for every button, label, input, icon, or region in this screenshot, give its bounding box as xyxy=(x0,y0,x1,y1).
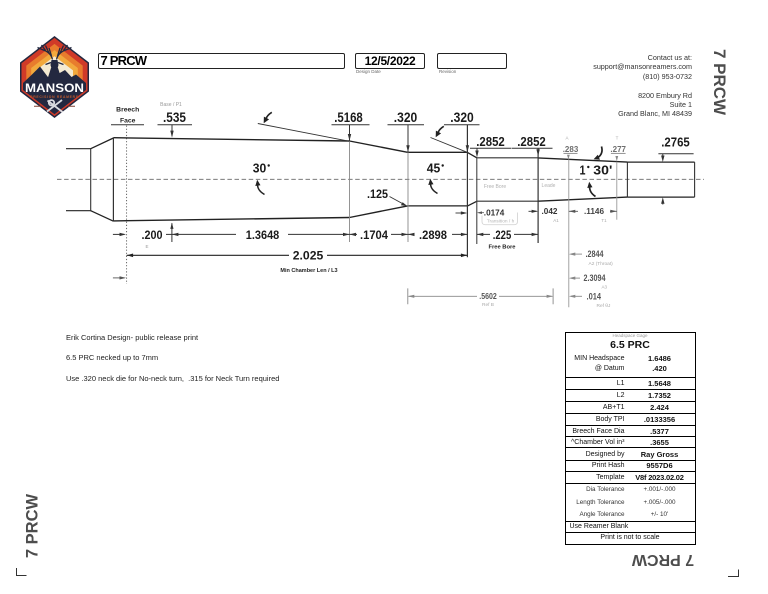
svg-text:.2852: .2852 xyxy=(517,134,546,149)
svg-text:Ref B: Ref B xyxy=(482,302,494,308)
dimension .320 neck end xyxy=(444,110,480,153)
dimension .5168 xyxy=(332,110,370,141)
svg-text:.277: .277 xyxy=(610,145,626,154)
extension line at throat point A xyxy=(568,159,570,307)
svg-text:.320: .320 xyxy=(450,110,474,125)
svg-text:Transition / h: Transition / h xyxy=(487,219,515,225)
svg-text:.014: .014 xyxy=(587,291,602,301)
extension line at neck start xyxy=(407,125,409,153)
svg-text:.2844: .2844 xyxy=(586,249,604,259)
svg-text:Leade: Leade xyxy=(542,183,556,189)
logo deer xyxy=(38,45,72,82)
title box 7 PRCW xyxy=(98,53,345,69)
svg-text:2.3094: 2.3094 xyxy=(584,273,606,283)
dimension .014 xyxy=(569,291,611,309)
svg-text:.320: .320 xyxy=(394,110,418,125)
neck bottom line xyxy=(408,205,468,207)
svg-text:.5168: .5168 xyxy=(334,110,363,125)
svg-text:E: E xyxy=(145,244,148,249)
logo amber band xyxy=(31,50,78,104)
contact block xyxy=(492,53,692,119)
centerline xyxy=(57,178,704,180)
angle 30deg xyxy=(253,161,270,195)
svg-text:.1704: .1704 xyxy=(360,228,388,242)
shank right edge xyxy=(90,148,92,211)
dimension row: 1.3648 xyxy=(172,228,350,242)
dimension .5602 xyxy=(408,288,553,307)
svg-text:1: 1 xyxy=(580,162,586,177)
svg-text:Min Chamber Len / L3: Min Chamber Len / L3 xyxy=(280,268,337,274)
data table xyxy=(565,332,696,546)
dimension .2844 throat xyxy=(569,249,613,267)
dimension .283 xyxy=(563,145,579,159)
extension line at point T xyxy=(616,162,618,220)
bore top line xyxy=(627,161,694,163)
extension line at neck end xyxy=(466,125,468,257)
svg-text:A1: A1 xyxy=(553,218,559,223)
extension line at freebore end xyxy=(537,148,539,243)
dimension .2765 xyxy=(658,135,693,205)
breech chamfer bottom xyxy=(91,211,114,222)
svg-text:Face: Face xyxy=(120,118,136,125)
logo badge outer hexagon xyxy=(20,36,89,118)
chamber body top line xyxy=(113,138,349,141)
freebore bottom line xyxy=(477,200,538,202)
corner marks xyxy=(0,560,768,594)
svg-text:.2898: .2898 xyxy=(419,228,447,242)
shank bottom line xyxy=(66,210,91,212)
dimension .1146 xyxy=(569,207,617,223)
leade top line xyxy=(538,158,627,162)
svg-text:Ref θJ: Ref θJ xyxy=(597,303,611,309)
angle 45deg xyxy=(427,161,444,194)
svg-text:Base / P1: Base / P1 xyxy=(160,102,182,108)
datum arrow lower xyxy=(113,276,126,279)
dimension 2.3094 xyxy=(569,273,608,289)
bore bottom line xyxy=(627,196,694,198)
dimension .2852 freebore end xyxy=(512,134,553,156)
svg-text:.5602: .5602 xyxy=(479,291,497,301)
dimension .320 neck start xyxy=(388,110,425,153)
svg-text:T: T xyxy=(616,136,619,141)
angle 1deg30 leade xyxy=(580,147,613,197)
shoulder bottom line xyxy=(350,206,408,218)
leade bottom line xyxy=(538,197,627,201)
svg-text:T1: T1 xyxy=(601,218,607,223)
dimension .125 leader xyxy=(367,187,408,207)
logo crossed tools xyxy=(47,100,63,112)
dimension row: .1704 xyxy=(350,228,409,242)
notes xyxy=(66,333,198,342)
revision box xyxy=(437,53,507,69)
dimension .2852 freebore start xyxy=(470,134,511,157)
dimension row: .200 xyxy=(113,223,174,242)
leader for 45 transition xyxy=(431,126,468,152)
breech face datum dotted line xyxy=(126,126,128,284)
svg-text:30': 30' xyxy=(593,162,612,177)
extension line at shoulder start xyxy=(349,125,351,141)
rotated labels xyxy=(719,82,768,102)
shank top line xyxy=(66,148,91,150)
bore start edge xyxy=(626,162,628,197)
svg-text:30: 30 xyxy=(253,161,267,176)
svg-text:.2765: .2765 xyxy=(661,135,690,150)
extension line at freebore start xyxy=(476,158,478,244)
45deg transition top xyxy=(467,152,477,158)
svg-text:.225: .225 xyxy=(493,228,512,242)
logo cream band xyxy=(36,56,73,98)
dimension .535 xyxy=(158,110,193,138)
leader for body taper xyxy=(258,112,350,141)
neck top line xyxy=(408,151,468,153)
logo red band xyxy=(22,38,88,116)
dimension .277 xyxy=(610,145,626,161)
svg-text:45: 45 xyxy=(427,161,441,176)
svg-text:A3: A3 xyxy=(602,285,608,290)
svg-text:Breech: Breech xyxy=(116,107,139,114)
svg-text:.283: .283 xyxy=(563,145,579,154)
breech face vertical xyxy=(112,138,114,222)
logo mountains xyxy=(23,67,86,115)
dimension .042 xyxy=(529,207,560,223)
45deg transition bottom xyxy=(468,201,477,206)
svg-text:.0174: .0174 xyxy=(484,208,505,217)
freebore top line xyxy=(477,157,538,159)
design date box xyxy=(355,53,425,69)
svg-text:.1146: .1146 xyxy=(584,207,604,216)
dimension row: .225 freebore xyxy=(477,228,538,251)
svg-text:Free Bore: Free Bore xyxy=(488,244,516,250)
svg-text:A: A xyxy=(565,136,568,141)
svg-text:Free Bore: Free Bore xyxy=(484,184,506,190)
chamber body bottom line xyxy=(113,218,349,221)
svg-text:.2852: .2852 xyxy=(476,134,505,149)
svg-text:1.3648: 1.3648 xyxy=(246,228,280,242)
dimension row: 2.025 min chamber len xyxy=(127,249,468,274)
dimension row: .2898 xyxy=(408,228,467,242)
bore end edge xyxy=(694,162,696,197)
dimension .0174 transition xyxy=(456,208,518,224)
label Breech Face xyxy=(111,107,144,125)
breech chamfer top xyxy=(91,138,114,149)
tick at .200 point xyxy=(171,223,173,242)
svg-text:A2 (Throat): A2 (Throat) xyxy=(589,261,614,267)
svg-text:.200: .200 xyxy=(142,228,163,242)
svg-text:PRECISION REAMERS: PRECISION REAMERS xyxy=(30,95,78,99)
svg-text:MANSON: MANSON xyxy=(25,83,84,95)
svg-text:.535: .535 xyxy=(163,110,186,125)
svg-text:.042: .042 xyxy=(542,207,558,216)
svg-text:.125: .125 xyxy=(367,187,388,201)
logo orange band xyxy=(26,44,82,110)
shoulder top line xyxy=(350,141,408,152)
svg-text:2.025: 2.025 xyxy=(293,249,324,263)
